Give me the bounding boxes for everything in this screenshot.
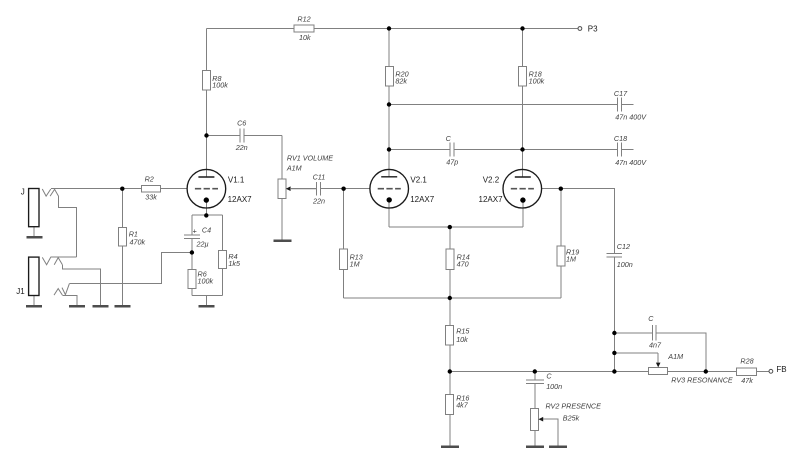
svg-text:R12: R12: [297, 15, 310, 24]
svg-text:33k: 33k: [145, 192, 157, 201]
svg-text:A1M: A1M: [286, 164, 302, 173]
svg-text:47n 400V: 47n 400V: [615, 112, 647, 121]
svg-text:C17: C17: [614, 89, 628, 98]
svg-text:C: C: [546, 371, 552, 380]
svg-text:12AX7: 12AX7: [479, 195, 504, 204]
svg-text:10k: 10k: [299, 33, 311, 42]
svg-text:C4: C4: [202, 226, 211, 235]
svg-text:82k: 82k: [395, 76, 407, 85]
svg-text:B25k: B25k: [563, 413, 580, 422]
svg-text:V2.2: V2.2: [483, 175, 500, 184]
svg-text:R15: R15: [456, 326, 470, 335]
svg-text:+: +: [193, 227, 197, 236]
svg-text:100k: 100k: [198, 276, 214, 285]
svg-text:FB: FB: [776, 365, 786, 374]
svg-text:J1: J1: [16, 287, 25, 296]
svg-text:47n 400V: 47n 400V: [615, 158, 647, 167]
svg-text:100k: 100k: [212, 81, 228, 90]
svg-text:C: C: [648, 314, 654, 323]
svg-text:4k7: 4k7: [456, 401, 469, 410]
svg-text:C: C: [446, 134, 452, 143]
svg-text:22µ: 22µ: [196, 240, 209, 249]
svg-text:RV3 RESONANCE: RV3 RESONANCE: [671, 375, 733, 384]
svg-text:100n: 100n: [617, 260, 633, 269]
svg-text:22n: 22n: [312, 197, 325, 206]
svg-text:RV2 PRESENCE: RV2 PRESENCE: [546, 402, 602, 411]
svg-text:100n: 100n: [546, 382, 562, 391]
svg-text:J: J: [21, 187, 25, 196]
svg-text:R2: R2: [145, 174, 154, 183]
svg-text:4n7: 4n7: [649, 341, 662, 350]
svg-text:470: 470: [457, 259, 469, 268]
svg-text:1k5: 1k5: [228, 259, 241, 268]
svg-text:C12: C12: [617, 242, 630, 251]
svg-text:V1.1: V1.1: [228, 175, 245, 184]
svg-text:RV1 VOLUME: RV1 VOLUME: [287, 153, 333, 162]
svg-text:C6: C6: [237, 119, 246, 128]
svg-text:1M: 1M: [566, 254, 576, 263]
svg-text:100k: 100k: [529, 76, 545, 85]
svg-text:22n: 22n: [235, 143, 248, 152]
svg-text:C18: C18: [614, 134, 627, 143]
svg-text:1M: 1M: [350, 259, 360, 268]
svg-text:A1M: A1M: [667, 352, 683, 361]
svg-text:12AX7: 12AX7: [410, 195, 435, 204]
svg-text:C11: C11: [313, 173, 326, 182]
svg-text:470k: 470k: [130, 237, 146, 246]
svg-text:P3: P3: [588, 25, 598, 34]
svg-text:10k: 10k: [456, 335, 468, 344]
svg-text:V2.1: V2.1: [410, 175, 427, 184]
svg-text:47k: 47k: [741, 376, 753, 385]
svg-text:12AX7: 12AX7: [228, 195, 253, 204]
svg-text:47p: 47p: [446, 158, 458, 167]
svg-text:R28: R28: [740, 356, 753, 365]
